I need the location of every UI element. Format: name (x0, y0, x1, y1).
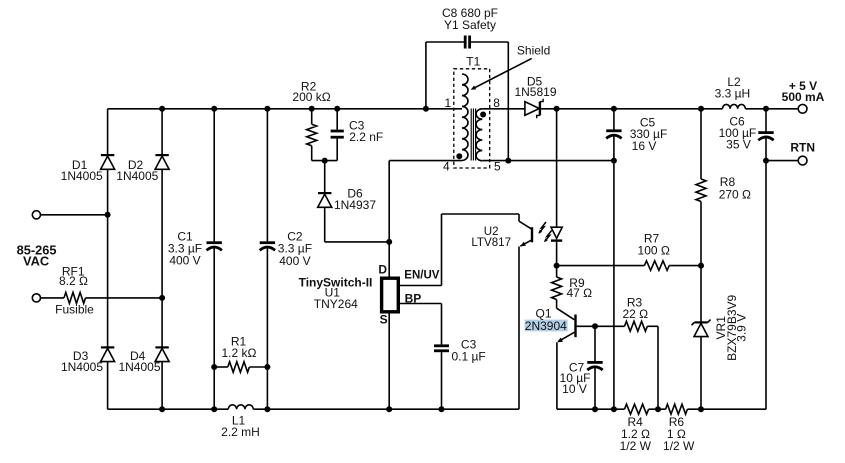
svg-text:270 Ω: 270 Ω (719, 188, 751, 202)
svg-text:16 V: 16 V (632, 139, 657, 153)
svg-text:1N4937: 1N4937 (334, 198, 376, 212)
svg-text:100 Ω: 100 Ω (638, 243, 670, 257)
svg-text:35 V: 35 V (726, 138, 751, 152)
svg-text:Y1 Safety: Y1 Safety (444, 18, 496, 32)
svg-text:1N4005: 1N4005 (61, 169, 103, 183)
svg-text:5: 5 (494, 159, 501, 173)
svg-text:1/2 W: 1/2 W (663, 439, 695, 453)
svg-text:400 V: 400 V (169, 254, 200, 268)
svg-text:S: S (380, 313, 388, 327)
svg-text:2N3904: 2N3904 (525, 319, 567, 333)
svg-text:1/2 W: 1/2 W (620, 439, 652, 453)
svg-text:10 V: 10 V (562, 382, 587, 396)
svg-text:2.2 nF: 2.2 nF (349, 130, 383, 144)
svg-text:0.1 µF: 0.1 µF (451, 350, 485, 364)
svg-text:8.2 Ω: 8.2 Ω (59, 274, 88, 288)
svg-text:Shield: Shield (517, 44, 550, 58)
svg-text:200 kΩ: 200 kΩ (292, 90, 330, 104)
svg-text:D: D (378, 263, 387, 277)
svg-text:T1: T1 (466, 55, 480, 69)
svg-text:400 V: 400 V (279, 254, 310, 268)
svg-text:Fusible: Fusible (55, 303, 94, 317)
svg-text:2.2 mH: 2.2 mH (221, 425, 260, 439)
svg-text:1: 1 (444, 96, 451, 110)
svg-text:4: 4 (443, 159, 450, 173)
svg-text:TNY264: TNY264 (314, 297, 358, 311)
svg-text:LTV817: LTV817 (471, 236, 511, 249)
svg-text:RTN: RTN (790, 140, 815, 154)
svg-text:47 Ω: 47 Ω (567, 286, 593, 300)
svg-text:BP: BP (405, 292, 422, 306)
svg-text:3.9 V: 3.9 V (734, 314, 748, 342)
svg-text:8: 8 (493, 96, 500, 110)
svg-text:3.3 µH: 3.3 µH (715, 87, 751, 101)
svg-text:1N5819: 1N5819 (514, 85, 556, 99)
svg-text:1.2 kΩ: 1.2 kΩ (222, 346, 257, 360)
svg-text:1N4005: 1N4005 (61, 360, 103, 374)
svg-text:500 mA: 500 mA (782, 90, 825, 104)
svg-text:1N4005: 1N4005 (116, 169, 158, 183)
svg-text:EN/UV: EN/UV (404, 269, 439, 281)
svg-text:1N4005: 1N4005 (118, 360, 160, 374)
svg-text:VAC: VAC (23, 254, 49, 269)
svg-text:22 Ω: 22 Ω (622, 307, 648, 321)
